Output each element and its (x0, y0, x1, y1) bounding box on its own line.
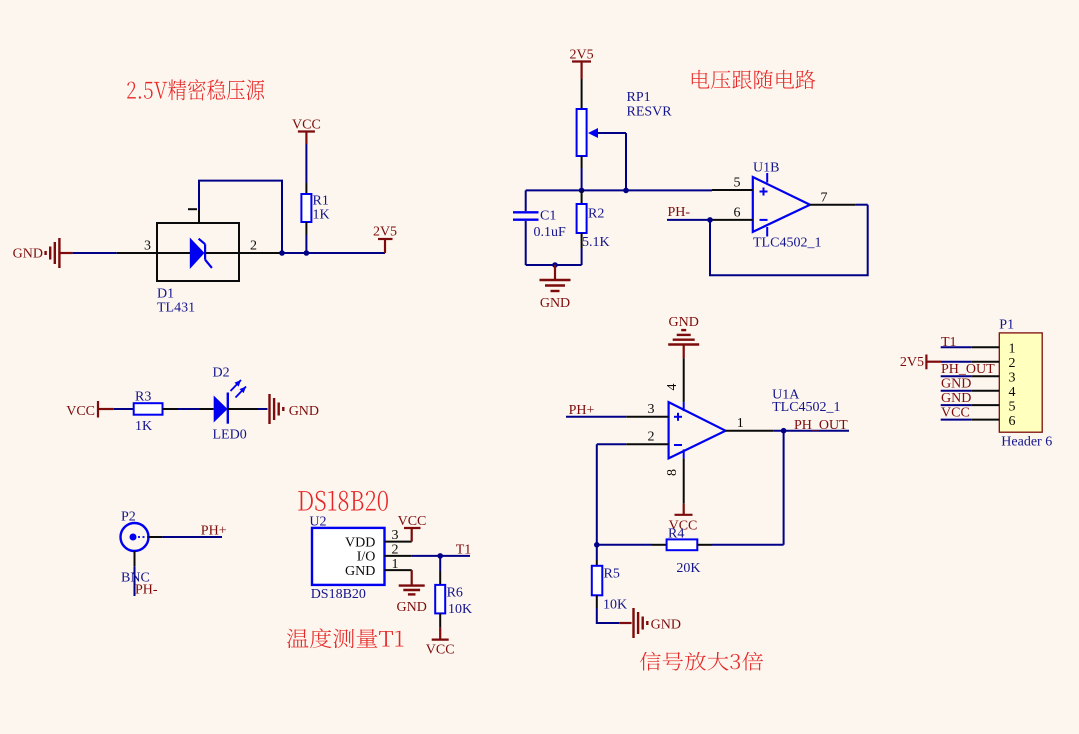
svg-text:2V5: 2V5 (570, 48, 594, 63)
svg-text:2V5: 2V5 (900, 355, 924, 370)
svg-text:VCC: VCC (292, 118, 321, 133)
svg-text:5: 5 (1009, 399, 1016, 414)
svg-text:VCC: VCC (426, 643, 455, 658)
svg-text:R1: R1 (313, 194, 329, 209)
svg-text:PH+: PH+ (201, 524, 227, 539)
svg-text:GND: GND (669, 315, 699, 330)
svg-text:VCC: VCC (66, 404, 95, 419)
svg-text:VCC: VCC (941, 406, 970, 421)
svg-text:PH+: PH+ (569, 403, 595, 418)
svg-text:PH_OUT: PH_OUT (794, 418, 848, 433)
svg-text:Header 6: Header 6 (1001, 435, 1052, 450)
svg-text:GND: GND (651, 618, 681, 633)
svg-text:4: 4 (1009, 385, 1016, 400)
svg-text:R3: R3 (135, 390, 151, 405)
svg-text:I/O: I/O (357, 550, 376, 565)
svg-text:20K: 20K (676, 561, 700, 576)
svg-text:5.1K: 5.1K (582, 235, 610, 250)
svg-text:GND: GND (941, 377, 971, 392)
svg-text:3: 3 (1009, 371, 1016, 386)
svg-text:T1: T1 (456, 543, 472, 558)
svg-text:R5: R5 (604, 567, 620, 582)
svg-text:TL431: TL431 (157, 301, 195, 316)
svg-text:GND: GND (397, 600, 427, 615)
svg-text:1K: 1K (313, 208, 330, 223)
svg-text:1K: 1K (135, 419, 152, 434)
svg-text:TLC4502_1: TLC4502_1 (772, 400, 840, 415)
svg-text:3: 3 (392, 528, 399, 543)
svg-text:R4: R4 (668, 527, 684, 542)
svg-text:VCC: VCC (398, 514, 427, 529)
svg-text:D2: D2 (213, 366, 230, 381)
svg-text:5: 5 (734, 176, 741, 191)
svg-text:6: 6 (734, 206, 741, 221)
svg-text:PH-: PH- (135, 583, 158, 598)
svg-text:D1: D1 (157, 287, 174, 302)
svg-text:GND: GND (345, 564, 375, 579)
svg-text:2: 2 (392, 543, 399, 558)
svg-text:GND: GND (13, 247, 43, 262)
svg-text:T1: T1 (941, 335, 957, 350)
svg-text:1: 1 (1009, 342, 1016, 357)
svg-text:1: 1 (737, 416, 744, 431)
svg-text:R6: R6 (447, 586, 463, 601)
svg-text:RESVR: RESVR (627, 105, 673, 120)
svg-text:DS18B20: DS18B20 (311, 587, 366, 602)
svg-text:10K: 10K (448, 602, 472, 617)
svg-text:U1B: U1B (753, 161, 779, 176)
svg-text:3: 3 (648, 402, 655, 417)
svg-text:R2: R2 (588, 207, 604, 222)
svg-text:1: 1 (392, 557, 399, 572)
svg-text:GND: GND (289, 404, 319, 419)
svg-text:2: 2 (1009, 356, 1016, 371)
svg-text:RP1: RP1 (627, 90, 651, 105)
svg-text:GND: GND (540, 296, 570, 311)
svg-text:4: 4 (665, 384, 680, 391)
svg-text:0.1uF: 0.1uF (534, 225, 567, 240)
svg-text:3: 3 (144, 239, 151, 254)
svg-text:2: 2 (250, 239, 257, 254)
svg-text:PH_OUT: PH_OUT (941, 362, 995, 377)
svg-text:LED0: LED0 (213, 428, 247, 443)
svg-text:VDD: VDD (345, 536, 375, 551)
svg-text:8: 8 (665, 469, 680, 476)
svg-text:6: 6 (1009, 414, 1016, 429)
svg-text:2: 2 (648, 430, 655, 445)
svg-text:PH-: PH- (668, 205, 691, 220)
svg-text:10K: 10K (603, 598, 627, 613)
svg-text:7: 7 (821, 191, 828, 206)
svg-text:P1: P1 (999, 318, 1014, 333)
svg-text:TLC4502_1: TLC4502_1 (753, 236, 821, 251)
svg-text:2V5: 2V5 (373, 225, 397, 240)
svg-text:GND: GND (941, 391, 971, 406)
svg-text:C1: C1 (540, 209, 556, 224)
